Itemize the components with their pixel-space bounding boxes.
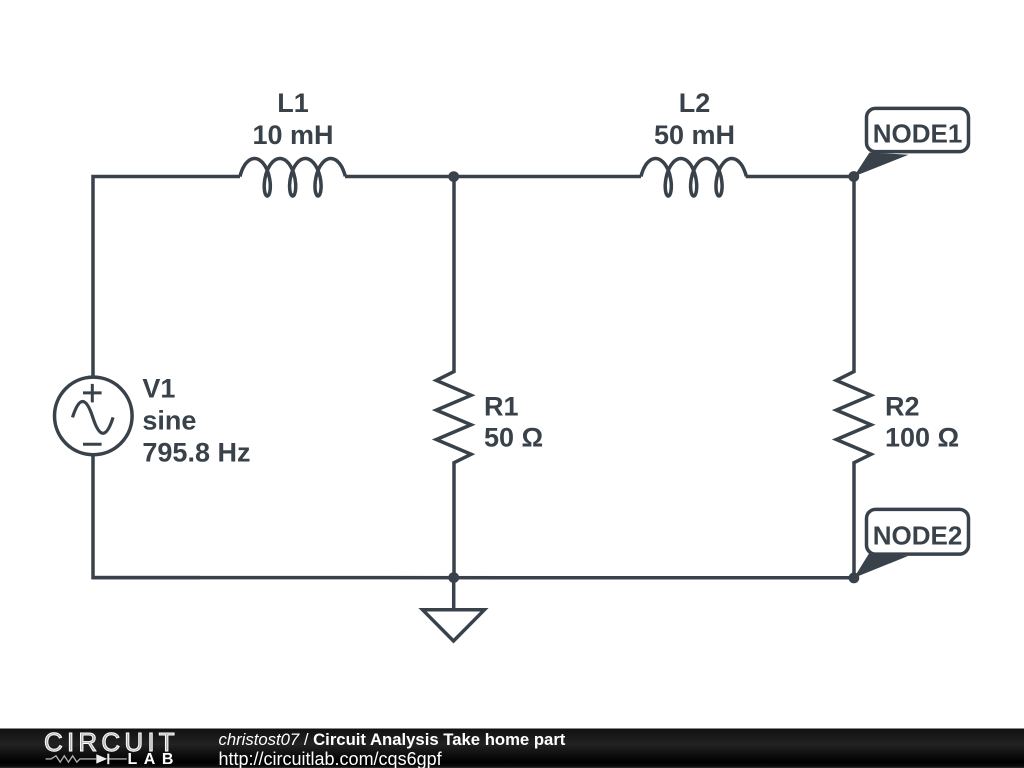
svg-text:50 Ω: 50 Ω bbox=[484, 423, 543, 453]
svg-text:R1: R1 bbox=[484, 391, 519, 421]
svg-text:NODE2: NODE2 bbox=[873, 521, 963, 551]
svg-text:V1: V1 bbox=[142, 374, 175, 404]
svg-text:christost07 / Circuit Analysis: christost07 / Circuit Analysis Take home… bbox=[219, 730, 566, 749]
svg-text:R2: R2 bbox=[885, 391, 920, 421]
svg-text:sine: sine bbox=[142, 406, 196, 436]
svg-text:L2: L2 bbox=[679, 88, 711, 118]
svg-text:10 mH: 10 mH bbox=[252, 120, 333, 150]
svg-text:100 Ω: 100 Ω bbox=[885, 423, 959, 453]
svg-text:LAB: LAB bbox=[128, 751, 180, 768]
svg-text:L1: L1 bbox=[277, 88, 309, 118]
svg-text:795.8 Hz: 795.8 Hz bbox=[142, 438, 250, 468]
svg-text:NODE1: NODE1 bbox=[873, 119, 963, 149]
svg-text:50 mH: 50 mH bbox=[654, 120, 735, 150]
svg-text:http://circuitlab.com/cqs6gpf: http://circuitlab.com/cqs6gpf bbox=[219, 749, 443, 768]
